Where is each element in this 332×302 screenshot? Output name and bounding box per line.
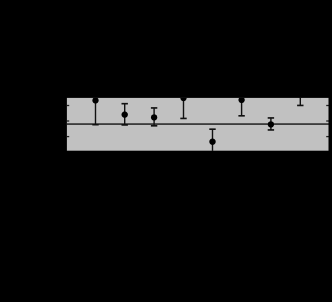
y tick right 2 — [326, 120, 328, 122]
zero line (axhline) — [67, 123, 329, 125]
errorbar point 2 — [122, 104, 128, 125]
axes background — [67, 98, 329, 151]
errorbar point 8 — [297, 92, 303, 106]
errorbar point 4 — [180, 95, 186, 119]
errorbar point 5 — [209, 129, 215, 153]
y tick right 1 — [326, 105, 328, 107]
y tick left 2 — [67, 120, 69, 122]
y tick right 3 — [326, 136, 328, 138]
errorbar point 7 — [268, 118, 274, 130]
errorbar point 1 — [92, 95, 98, 125]
errorbar point 3 — [151, 108, 157, 126]
y tick left 1 — [67, 105, 69, 107]
y tick left 3 — [67, 136, 69, 138]
errorbar point 6 — [238, 95, 244, 116]
